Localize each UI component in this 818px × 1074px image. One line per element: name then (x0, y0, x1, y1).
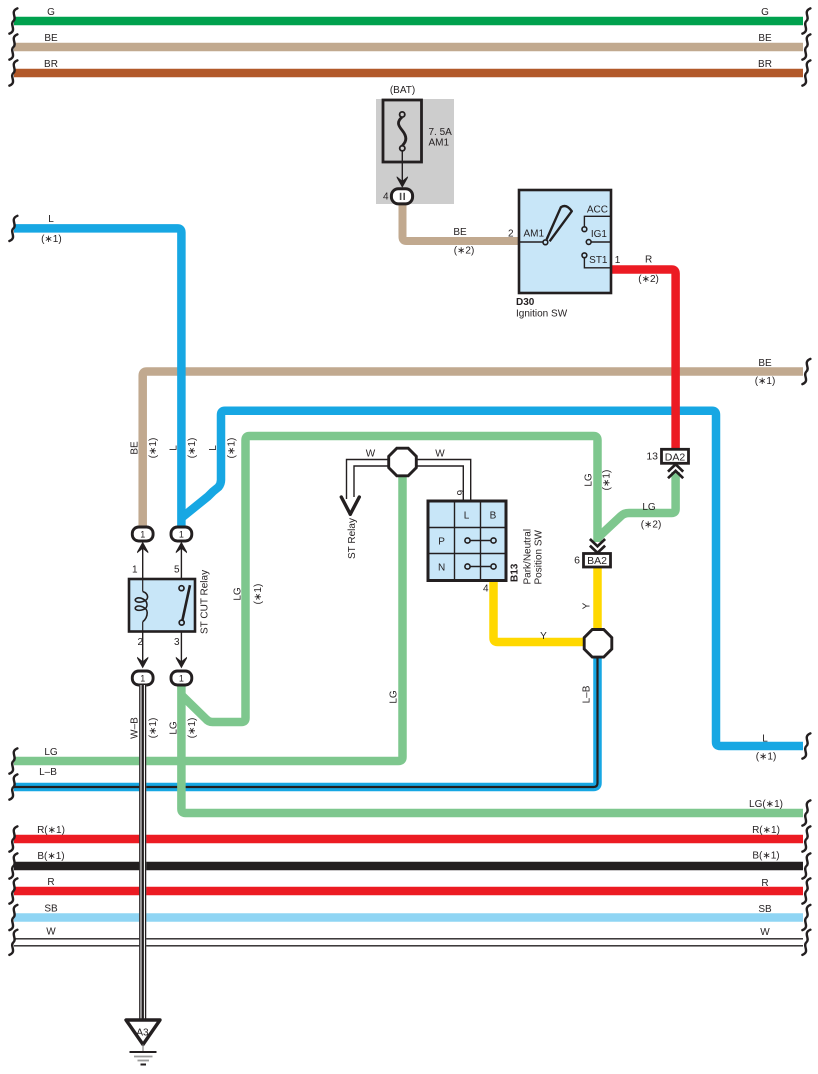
svg-text:BE: BE (44, 33, 58, 44)
wire R (*1) bus (9, 825, 810, 852)
svg-text:D30: D30 (516, 297, 535, 308)
svg-text:6: 6 (574, 555, 580, 567)
wire BE (*2) from fuse to ignition SW (403, 203, 520, 257)
ground A3 (126, 1020, 160, 1065)
connector 6 BA2 (574, 539, 610, 567)
svg-text:(∗1): (∗1) (148, 438, 159, 459)
svg-text:LG: LG (233, 587, 244, 601)
ST CUT relay box (129, 565, 211, 649)
svg-text:(BAT): (BAT) (390, 85, 415, 96)
wire BR bus (top) (9, 59, 810, 86)
svg-text:R(∗1): R(∗1) (37, 825, 65, 836)
svg-text:(∗2): (∗2) (454, 246, 475, 257)
svg-text:ACC: ACC (587, 205, 608, 216)
wire Y from BA2 to junction (593, 567, 602, 630)
svg-text:Ignition SW: Ignition SW (516, 309, 568, 320)
svg-text:LG: LG (44, 747, 58, 758)
connector 13 DA2 (646, 449, 688, 478)
svg-text:(∗1): (∗1) (148, 718, 159, 739)
svg-text:IG1: IG1 (591, 229, 608, 240)
wire R (*2) from ST1 to DA2 (611, 255, 676, 450)
connector pin 1 (BE to relay) (132, 527, 153, 579)
svg-text:LG: LG (389, 690, 400, 704)
svg-text:3: 3 (174, 637, 180, 648)
svg-text:W: W (760, 927, 770, 938)
svg-text:BE: BE (758, 33, 772, 44)
svg-text:R: R (645, 255, 652, 266)
svg-text:(∗2): (∗2) (641, 520, 662, 531)
svg-text:(∗1): (∗1) (227, 438, 238, 459)
svg-text:13: 13 (646, 451, 658, 463)
svg-text:5: 5 (174, 565, 180, 576)
wire LG (*2) from DA2 (598, 472, 676, 538)
svg-text:P: P (438, 537, 445, 548)
svg-text:LG: LG (642, 502, 656, 513)
wire L (*1) entry at left (9, 214, 181, 527)
svg-text:W: W (366, 449, 376, 460)
wire BE (*1) bus (143, 358, 811, 528)
svg-text:B(∗1): B(∗1) (752, 851, 779, 862)
svg-text:A3: A3 (136, 1028, 149, 1039)
svg-text:7. 5A: 7. 5A (429, 127, 453, 138)
svg-text:LG: LG (168, 721, 179, 735)
svg-text:4: 4 (483, 584, 489, 595)
svg-text:AM1: AM1 (524, 229, 545, 240)
svg-text:AM1: AM1 (429, 138, 450, 149)
svg-text:B(∗1): B(∗1) (37, 851, 64, 862)
svg-text:R: R (47, 877, 54, 888)
svg-text:(∗1): (∗1) (253, 584, 264, 605)
svg-text:1: 1 (615, 255, 621, 266)
wire SB bus (9, 904, 810, 931)
svg-text:W: W (435, 449, 445, 460)
svg-text:4: 4 (383, 192, 389, 203)
svg-text:BR: BR (44, 59, 58, 70)
svg-text:(∗1): (∗1) (41, 234, 62, 245)
svg-text:W–B: W–B (130, 717, 141, 739)
svg-text:(∗1): (∗1) (755, 376, 776, 387)
svg-text:BE: BE (758, 358, 772, 369)
wire G bus (top) (9, 7, 810, 34)
svg-text:(∗1): (∗1) (602, 470, 613, 491)
wire W left with arrow (ST Relay) (341, 449, 388, 560)
svg-text:LG: LG (584, 473, 595, 487)
svg-text:L: L (48, 214, 54, 225)
svg-text:2: 2 (508, 229, 514, 240)
wire W bus (9, 927, 810, 955)
ignition switch D30 (516, 190, 621, 320)
svg-text:SB: SB (758, 904, 772, 915)
svg-text:9: 9 (456, 490, 467, 496)
svg-text:ST1: ST1 (589, 255, 608, 266)
wire W-B from relay pin 2 to ground (139, 685, 146, 1020)
svg-text:W: W (46, 927, 56, 938)
svg-text:BR: BR (758, 59, 772, 70)
svg-text:1: 1 (132, 565, 138, 576)
junction octagon Y/L-B (582, 602, 612, 703)
wire BE bus (top) (9, 33, 810, 60)
svg-text:G: G (47, 7, 55, 18)
svg-text:L–B: L–B (582, 685, 593, 703)
wire LG bus (to ST relay junction) (9, 475, 402, 774)
svg-text:Position SW: Position SW (534, 529, 545, 584)
wire LG (*1) bus from relay pin 3 (181, 683, 810, 826)
svg-text:BA2: BA2 (587, 555, 607, 567)
svg-text:Y: Y (540, 631, 547, 642)
svg-text:L: L (208, 445, 219, 451)
junction octagon ST relay (W splice) (389, 448, 417, 476)
svg-text:L: L (464, 511, 470, 522)
svg-text:BE: BE (453, 227, 467, 238)
svg-text:G: G (761, 7, 769, 18)
svg-text:L–B: L–B (39, 767, 57, 778)
svg-text:(∗1): (∗1) (187, 718, 198, 739)
wire R bus (9, 877, 810, 904)
fuse block AM1 (BAT) (376, 85, 454, 204)
connector pin 3 (relay to LG) (171, 632, 192, 686)
svg-text:R: R (761, 878, 768, 889)
svg-text:BE: BE (130, 441, 141, 455)
svg-text:ST CUT Relay: ST CUT Relay (200, 570, 211, 634)
svg-text:L: L (168, 445, 179, 451)
connector pin 5 (L to relay) (171, 527, 192, 579)
svg-text:SB: SB (44, 904, 58, 915)
svg-text:(∗2): (∗2) (638, 274, 659, 285)
svg-text:LG(∗1): LG(∗1) (749, 799, 783, 810)
wire L (*1) loop right side (182, 411, 810, 763)
svg-text:DA2: DA2 (665, 451, 686, 463)
svg-text:(∗1): (∗1) (756, 752, 777, 763)
svg-text:L: L (762, 734, 768, 745)
svg-text:B13: B13 (510, 563, 521, 582)
svg-text:R(∗1): R(∗1) (752, 825, 780, 836)
wire L-B bus (9, 656, 597, 800)
svg-text:Y: Y (582, 602, 593, 609)
svg-text:B: B (490, 511, 497, 522)
connector pin 2 (relay to W-B) (132, 632, 153, 686)
svg-text:(∗1): (∗1) (187, 438, 198, 459)
wire W right to B13 pin 9 (417, 449, 471, 501)
svg-text:ST Relay: ST Relay (347, 518, 358, 559)
svg-text:N: N (438, 563, 445, 574)
wire B (*1) bus (9, 851, 810, 879)
wire Y from B13 pin 4 to junction (494, 580, 585, 642)
wire LG branch to Park/Neutral SW and BA2 (181, 436, 597, 722)
svg-text:Park/Neutral: Park/Neutral (523, 529, 534, 585)
switch B13 Park/Neutral Position SW (428, 501, 545, 595)
